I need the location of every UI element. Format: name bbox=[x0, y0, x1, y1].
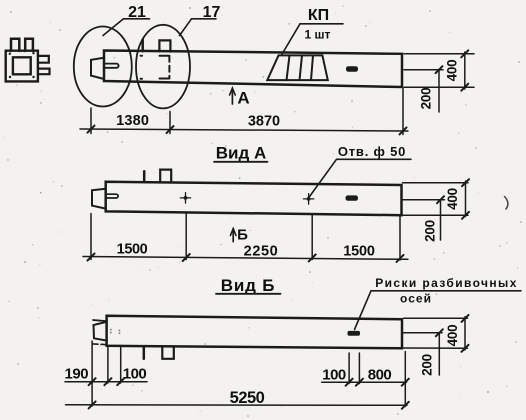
svg-text:800: 800 bbox=[368, 367, 392, 384]
thin stub below (view B) bbox=[143, 346, 146, 359]
section arrow B (view A) bbox=[230, 227, 248, 244]
svg-text:200: 200 bbox=[423, 220, 438, 242]
right-side dims 400/200 (view B) bbox=[403, 317, 468, 375]
left end hook (view A) bbox=[92, 189, 106, 209]
detail ellipse 21 bbox=[74, 27, 132, 107]
left end tongue (top view) bbox=[104, 64, 119, 68]
beam body (top view) bbox=[104, 51, 402, 88]
svg-text:400: 400 bbox=[445, 188, 460, 210]
dashed line below hook (view B) bbox=[93, 343, 107, 346]
slot (view A) bbox=[346, 195, 359, 200]
small marks inside beam (view B) bbox=[110, 329, 120, 334]
svg-text:Вид А: Вид А bbox=[216, 144, 267, 163]
svg-text:Риски разбивочных: Риски разбивочных bbox=[375, 276, 518, 290]
svg-text:400: 400 bbox=[445, 325, 460, 347]
ext line mid bbox=[169, 112, 171, 134]
U stub below (view B) bbox=[162, 347, 174, 359]
svg-text:Б: Б bbox=[237, 227, 248, 244]
title Vid A bbox=[214, 144, 268, 163]
detail ellipse 17 bbox=[136, 25, 190, 109]
dim line bbox=[80, 129, 408, 131]
right-side dims 400/200 (view A) bbox=[403, 181, 469, 240]
svg-text:1500: 1500 bbox=[117, 242, 148, 258]
dashed hidden bracket (top view) bbox=[141, 56, 170, 79]
label KP 1sht bbox=[282, 7, 344, 55]
label 21 bbox=[103, 4, 150, 36]
svg-text:100: 100 bbox=[322, 367, 346, 384]
end-view right bar 2 bbox=[38, 69, 49, 75]
svg-text:1500: 1500 bbox=[343, 244, 375, 260]
left end tongue (view A) bbox=[106, 194, 118, 198]
dim slashes 400/200 (view A right) bbox=[437, 179, 469, 219]
svg-text:КП: КП bbox=[308, 7, 329, 24]
end-view top stub 1 bbox=[11, 39, 19, 51]
end-view inner square bbox=[13, 57, 31, 74]
ext line right bbox=[402, 89, 404, 135]
svg-text:5250: 5250 bbox=[230, 389, 265, 407]
svg-text:Отв. ф 50: Отв. ф 50 bbox=[338, 144, 406, 159]
dim slashes row2 (view B) bbox=[89, 401, 409, 408]
svg-text:1380: 1380 bbox=[116, 113, 149, 129]
label Otv f50 bbox=[309, 144, 411, 197]
end-view right bar 1 bbox=[38, 56, 49, 63]
title Vid B bbox=[216, 276, 281, 295]
U stub on top (view A) bbox=[160, 170, 171, 183]
dimension 1380/3870 (top view) bbox=[80, 89, 408, 135]
stray scan arc bbox=[505, 197, 508, 210]
end-view outer square bbox=[6, 51, 38, 82]
ext line left bbox=[90, 108, 92, 134]
U stub on top (top view) bbox=[159, 40, 170, 51]
short line above hook (view B) bbox=[93, 320, 107, 321]
hole cross 1 (view A) bbox=[180, 193, 190, 203]
beam body (view A) bbox=[106, 182, 402, 216]
svg-text:Вид Б: Вид Б bbox=[221, 276, 275, 295]
label 17 bbox=[180, 4, 221, 36]
svg-text:осей: осей bbox=[400, 292, 432, 306]
svg-text:100: 100 bbox=[123, 366, 147, 383]
right-side dims 400/200 (top view) bbox=[404, 52, 474, 112]
thin stub on top (view A) bbox=[143, 171, 146, 182]
end-view top stub 2 bbox=[25, 39, 33, 51]
hole cross 2 (view A) bbox=[303, 194, 313, 204]
dim slashes 400/200 (top view right) bbox=[436, 50, 469, 90]
svg-text:400: 400 bbox=[445, 60, 460, 82]
beam body (view B) bbox=[107, 316, 402, 349]
dim slashes (view A bottom) bbox=[88, 254, 404, 262]
left end hook (view B) bbox=[94, 322, 107, 341]
svg-text:200: 200 bbox=[419, 88, 434, 110]
dim row2 5250 (view B) bbox=[66, 404, 408, 407]
svg-text:2250: 2250 bbox=[244, 244, 279, 260]
riska mark (view B) bbox=[348, 331, 361, 336]
dims row1 190/100/100/800 (view B) bbox=[65, 341, 407, 407]
svg-text:3870: 3870 bbox=[248, 114, 280, 130]
dim slashes row1 (view B) bbox=[89, 378, 409, 386]
svg-text:А: А bbox=[237, 89, 249, 108]
section arrow A (top view) bbox=[230, 88, 250, 108]
end-view corner dots bbox=[9, 52, 35, 78]
svg-text:190: 190 bbox=[65, 366, 89, 383]
dim slashes (top view bottom) bbox=[88, 126, 407, 135]
svg-text:200: 200 bbox=[420, 354, 435, 376]
slot (top view) bbox=[346, 66, 358, 72]
dimension 1500/2250/1500 (view A) bbox=[83, 213, 408, 261]
left end hook (top view) bbox=[91, 58, 104, 79]
svg-text:1 шт: 1 шт bbox=[305, 28, 331, 42]
thin stub on top (top view) bbox=[141, 40, 144, 52]
label riski razbivochnykh osey bbox=[355, 276, 522, 330]
dim slashes 400/200 (view B right) bbox=[436, 315, 469, 352]
KP hatched plate bbox=[267, 55, 328, 80]
